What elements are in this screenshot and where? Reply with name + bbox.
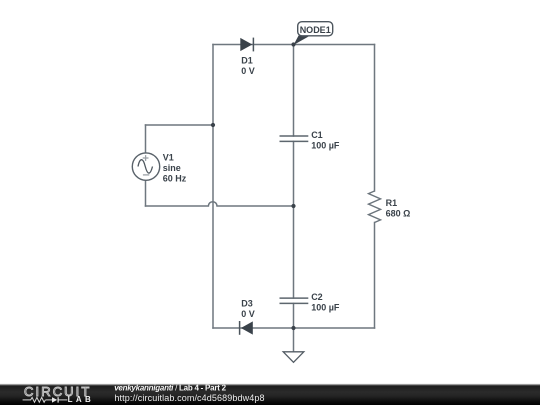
logo diode [52,397,59,402]
logo wire to diode [46,399,53,401]
capacitor C2 [280,298,309,303]
diode D1 [240,38,253,52]
svg-text:100 µF: 100 µF [311,141,340,151]
node NODE1 flag [294,22,333,45]
svg-text:0 V: 0 V [241,309,255,319]
svg-text:V1: V1 [163,152,174,162]
junction dot middle wire / middle vertical [291,204,295,208]
svg-text:D3: D3 [241,298,253,308]
capacitor C1 [280,136,309,141]
wire middle vertical lower (C2 to bottom) [293,304,295,329]
ground [283,352,304,363]
svg-text:C1: C1 [311,130,323,140]
wire V1 lower vertical [145,180,147,206]
junction dot bottom wire / ground [291,326,295,330]
svg-text:0 V: 0 V [241,66,255,76]
wire top (node: D1 cathode to R1 top) [213,44,375,46]
svg-text:100 µF: 100 µF [311,303,340,313]
svg-text:LAB: LAB [68,395,95,404]
CircuitLab logo schematic squiggle: lead wire [23,397,68,402]
wire right vertical upper (to R1) [374,45,376,192]
wire V1 upper vertical [145,125,147,153]
svg-text:sine: sine [163,163,181,173]
junction dot at V1 top / left vertical [211,123,215,127]
svg-text:http://circuitlab.com/c4d5689b: http://circuitlab.com/c4d5689bdw4p8 [114,393,264,403]
node NODE1 junction dot [291,42,295,46]
wire right vertical lower (from R1) [374,223,376,329]
svg-text:NODE1: NODE1 [300,25,331,35]
diode D3 [240,321,253,335]
wire left vertical [212,45,214,329]
V1 minus mark [143,174,149,176]
wire middle horizontal with hop over left vertical [146,202,294,206]
wire middle vertical mid (C1 to C2) [293,142,295,299]
svg-text:venkykanniganti / Lab 4 - Part: venkykanniganti / Lab 4 - Part 2 [114,384,226,393]
svg-text:R1: R1 [386,198,398,208]
wire V1 top horizontal [146,124,214,126]
voltage source V1 [132,153,159,180]
logo resistor zigzag [31,397,46,402]
V1 plus mark [143,155,150,175]
wire ground stub [293,328,295,352]
wire middle vertical upper (NODE1 to C1) [293,45,295,137]
svg-text:D1: D1 [241,56,253,66]
logo wire after diode [58,399,67,401]
svg-text:60 Hz: 60 Hz [163,173,187,183]
wire bottom [213,327,375,329]
svg-text:C2: C2 [311,292,323,302]
resistor R1 [369,191,381,223]
svg-text:680 Ω: 680 Ω [386,208,411,218]
